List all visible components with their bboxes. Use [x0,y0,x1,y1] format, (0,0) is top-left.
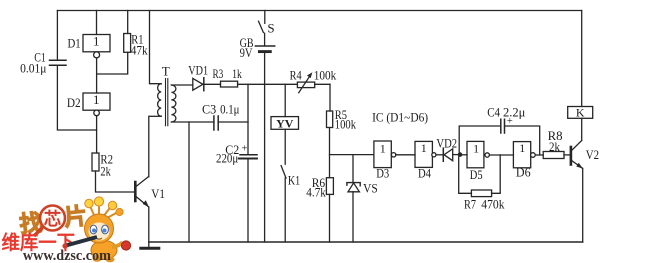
svg-text:D3: D3 [376,166,389,181]
svg-text:1k: 1k [232,66,242,81]
diode VD1 [188,62,220,90]
svg-text:1: 1 [380,141,386,155]
svg-text:D1: D1 [68,36,81,51]
svg-text:+: + [507,116,513,127]
capacitor C4 [459,105,540,155]
svg-text:V1: V1 [151,186,165,201]
svg-text:4.7k: 4.7k [306,185,326,200]
svg-text:2k: 2k [100,164,111,179]
capacitor C3 [202,102,248,131]
svg-text:C3: C3 [202,102,216,117]
wire V2 emitter to bottom rail [582,169,584,243]
wire secondary ground drop [188,122,190,242]
svg-text:+: + [242,144,248,155]
resistor R4 (adjustable) [290,68,337,93]
resistor R2 [92,151,135,192]
capacitor C1 [20,49,97,130]
switch S [259,11,275,46]
svg-text:1: 1 [93,34,100,49]
svg-text:www.dzsc.com: www.dzsc.com [23,248,111,263]
svg-text:1: 1 [473,142,479,156]
solenoid valve YV [271,84,299,164]
wire V1 collector to transformer [148,116,150,177]
wire node A to D5 [460,154,467,156]
svg-text:V2: V2 [586,147,599,162]
wire D2 to R2 [96,116,98,153]
resistor R3 [213,66,298,87]
transistor V2 [571,141,599,169]
resistor R5 [327,107,357,178]
svg-text:100k: 100k [335,116,357,131]
gate D2 [67,92,110,116]
wire left rail upper [56,11,58,60]
wire V1 emitter to bottom rail [148,207,150,242]
svg-text:S: S [267,21,274,36]
svg-text:D2: D2 [67,95,81,110]
svg-text:1: 1 [421,141,427,155]
svg-text:C4: C4 [487,105,500,120]
svg-text:R3: R3 [213,66,224,81]
wire bottom rail [149,241,583,243]
battery GB 9V [240,35,275,242]
svg-text:1: 1 [519,141,525,155]
svg-text:R7: R7 [464,197,476,212]
gate D4 [415,141,436,181]
ground [141,242,159,248]
svg-text:T: T [162,64,170,79]
svg-text:K: K [576,105,585,119]
svg-text:D5: D5 [470,167,483,182]
wire oscillator input node to D3 [330,154,374,156]
mascot [85,197,131,262]
wire D1 to D2 [96,58,98,93]
svg-text:片: 片 [63,203,88,230]
wire D5 to D6 [489,154,513,156]
diode VD2 [436,136,458,162]
resistor R7 [459,155,505,212]
capacitor C2 [216,142,257,242]
svg-text:1: 1 [93,92,100,107]
wire top rail [57,10,581,12]
zener diode VS [347,155,378,242]
svg-text:47k: 47k [131,42,148,57]
resistor R1 [97,11,148,75]
node A junction dot [458,152,463,157]
svg-text:VS: VS [363,181,378,196]
relay K [568,11,593,120]
resistor R8 [535,128,570,159]
svg-text:VD1: VD1 [188,62,208,77]
svg-text:芯: 芯 [44,209,62,229]
svg-text:K1: K1 [288,172,300,187]
wire V2 collector to relay K [581,118,583,140]
svg-text:D6: D6 [516,165,531,180]
svg-text:2k: 2k [549,139,560,154]
resistor R6 [306,175,333,242]
watermark logo dzsc [2,197,131,263]
svg-text:D4: D4 [418,166,431,181]
wire D3 to D4 [396,154,415,156]
svg-text:R4: R4 [290,68,302,83]
transformer T [150,11,214,126]
gate D1 [68,11,111,58]
gate D6 [513,141,535,180]
gate D3 [374,141,396,181]
svg-text:0.1μ: 0.1μ [220,102,239,117]
switch K1 [281,166,300,242]
gate D5 [467,141,489,182]
svg-text:IC (D1~D6): IC (D1~D6) [372,110,428,125]
transistor V1 [135,177,165,208]
svg-text:470k: 470k [481,197,505,212]
wire R4 down to R5 [329,84,331,111]
node junction rectifier output [247,84,249,155]
svg-text:0.01μ: 0.01μ [20,62,47,76]
svg-text:VD2: VD2 [436,136,457,151]
svg-text:100k: 100k [314,68,337,83]
svg-text:220μ: 220μ [216,151,238,165]
svg-text:9V: 9V [240,45,253,60]
svg-text:YV: YV [276,116,294,130]
